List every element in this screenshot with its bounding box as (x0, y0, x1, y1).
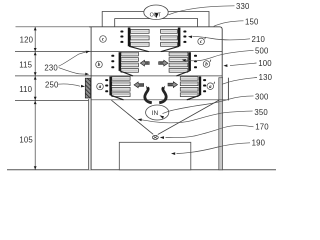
svg-text:115: 115 (19, 61, 32, 70)
row a left fin stack (112, 77, 130, 81)
IN oval (146, 105, 169, 120)
partition line y100 (bottom tube sheet) (91, 99, 228, 101)
outlet duct outer wall (102, 12, 209, 27)
inner right wall 130 (gray column) (219, 78, 223, 170)
extension line y100 (15, 99, 91, 101)
svg-text:105: 105 (19, 135, 33, 144)
row a right tube plate (199, 77, 201, 96)
row b left fin stack (121, 52, 138, 56)
partition line y76 (91, 75, 222, 77)
row c right fin stack (161, 29, 178, 33)
row c right tube plate (178, 28, 181, 47)
drain valve (152, 135, 158, 139)
350 leader (148, 111, 253, 123)
130 leader (222, 78, 257, 85)
row b right tube plate (188, 52, 191, 71)
svg-text:330: 330 (236, 2, 250, 11)
casing outer right segment (227, 78, 229, 101)
row b right baffle diagonal (176, 71, 189, 76)
row c left tube plate (128, 28, 131, 47)
circled letter a-prime (207, 83, 214, 90)
svg-text:500: 500 (255, 46, 269, 55)
svg-text:100: 100 (258, 59, 272, 68)
500 leader (186, 50, 254, 60)
base floor line (7, 169, 276, 171)
row c left nozzle dots (120, 31, 123, 33)
190 leader (177, 143, 251, 154)
row a left tube plate (109, 77, 111, 96)
svg-text:300: 300 (255, 92, 269, 101)
OUT arrow (155, 13, 159, 19)
svg-text:110: 110 (19, 85, 32, 94)
300 arrow into IN (160, 115, 165, 118)
row c right baffle diagonal (161, 46, 179, 51)
outlet duct inner wall (115, 19, 198, 27)
svg-text:150: 150 (245, 17, 259, 26)
left swirl flow arrow (145, 87, 152, 102)
100 leader (230, 63, 257, 66)
row b right nozzle dots (194, 55, 197, 57)
svg-text:120: 120 (20, 35, 34, 44)
svg-text:IN: IN (152, 110, 159, 117)
150 leader (214, 21, 244, 27)
svg-text:250: 250 (45, 80, 59, 89)
row a right fin stack (180, 77, 198, 81)
row b right fin stack (169, 52, 188, 56)
circled letter b-prime (203, 61, 210, 68)
funnel left diagonal (111, 100, 153, 134)
svg-text:190: 190 (252, 139, 266, 148)
row a right flow arrow (168, 82, 178, 88)
circled letter c-prime (198, 38, 205, 45)
svg-text:170: 170 (255, 122, 269, 131)
row b left baffle diagonal (120, 71, 133, 76)
300 leader (168, 96, 254, 112)
330 leader (168, 6, 234, 15)
row c right nozzle dots (183, 31, 186, 33)
row a left baffle diagonal (111, 95, 124, 100)
row a right nozzle dots (203, 79, 206, 81)
row b right flow arrow (159, 60, 168, 66)
row a left flow arrow (134, 82, 144, 88)
left hatched bar 250 (85, 78, 90, 98)
circled letter c (100, 36, 107, 43)
row a left nozzle dots (105, 79, 108, 81)
right swirl flow arrow (159, 87, 166, 102)
svg-text:230: 230 (44, 64, 58, 73)
svg-text:210: 210 (252, 35, 266, 44)
250 leader (58, 84, 81, 86)
dimension line vertical (34, 27, 36, 170)
row b left nozzle dots (111, 55, 114, 57)
row b left flow arrow (140, 60, 149, 66)
partition line y52 (91, 51, 222, 53)
230 leader fork (59, 54, 80, 66)
extension line y52 (15, 51, 91, 53)
circled letter b (96, 61, 103, 68)
casing top edge and right inner edge (89, 27, 222, 78)
row c left baffle diagonal (129, 46, 149, 51)
extension line y27 (16, 26, 92, 28)
funnel right diagonal (158, 100, 219, 134)
extension line y76 (15, 75, 91, 77)
170 leader (166, 126, 254, 138)
dimension arrowheads (34, 27, 37, 30)
OUT oval (144, 5, 168, 20)
row c left fin stack 210 (131, 29, 150, 33)
svg-text:130: 130 (259, 73, 273, 82)
circled letter a (97, 83, 104, 90)
210 leader (193, 36, 251, 40)
casing left wall (double line) (89, 99, 92, 170)
drain pan 190 rectangle (119, 142, 191, 170)
row a right baffle diagonal (187, 95, 200, 100)
row b left tube plate (119, 52, 121, 71)
svg-text:350: 350 (254, 108, 268, 117)
